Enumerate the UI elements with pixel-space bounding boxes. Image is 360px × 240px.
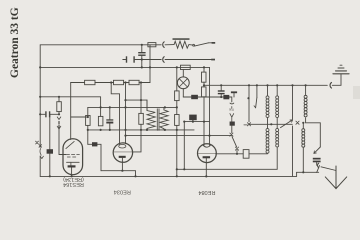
capacitor C3 grid: [45, 111, 46, 117]
wire junction column x141.8: [141, 45, 143, 68]
wire fuse drop x150: [149, 45, 151, 83]
switch S5 blade with arrow: [281, 120, 293, 128]
lamp LA1: [177, 77, 189, 89]
column x176.8: [176, 67, 178, 176]
choke L1b loops: [266, 129, 269, 154]
wire column x184.3: [183, 122, 185, 170]
choke L2b loops: [276, 129, 279, 148]
resistor R7: [98, 116, 103, 125]
bus wire y85.3 to earth: [204, 84, 327, 86]
label V1 RES164: [63, 176, 84, 187]
svg-text:Geatron 33 tG: Geatron 33 tG: [9, 7, 21, 78]
wire corner to rectifier column: [209, 67, 211, 145]
jack box right: [243, 150, 249, 159]
resistor R8: [139, 113, 144, 124]
resistor R12: [202, 72, 207, 82]
wire y124.3: [249, 123, 292, 125]
tube V3 grid wire: [216, 153, 268, 155]
plug connector top: [163, 42, 164, 48]
tube V3 RE084 envelope: [198, 144, 217, 163]
capacitor C6 dark: [223, 95, 229, 99]
transformer T1 core: [157, 109, 159, 131]
svg-text:RE034: RE034: [114, 189, 131, 195]
output coil L3a: [304, 95, 307, 117]
wire cathode bottom middle tube: [101, 171, 136, 177]
switch S3 blade open: [256, 85, 258, 97]
phone chain column x231.8: [230, 102, 234, 105]
capacitor C4 electrolytic: [109, 107, 111, 129]
capacitor C7 tap: [231, 91, 237, 93]
svg-text:RE084: RE084: [198, 189, 215, 195]
resistor R2 volume: [57, 102, 62, 112]
wire bus left lower: [39, 156, 41, 177]
capacitor C9 dark: [230, 122, 235, 126]
rail y107.4: [88, 106, 177, 108]
capacitor C5 dark: [191, 95, 198, 99]
tube V2 anode wire right: [132, 130, 141, 152]
resistor R6: [87, 107, 89, 115]
tube V2 internals: [119, 144, 126, 148]
tube V3 internals: [203, 145, 211, 147]
resistor R4: [114, 80, 124, 84]
bus bottom y176.4: [40, 172, 296, 176]
resistor R10: [175, 115, 180, 126]
wire R6 chain to cathode: [88, 144, 101, 170]
switch mains contacts: [36, 141, 39, 144]
tube V1 top lead: [70, 117, 72, 140]
resistor R3: [85, 80, 95, 84]
capacitor C antenna series: [126, 56, 127, 62]
wire column x71 to tube anode feed: [71, 83, 88, 118]
switch S4 contact: [248, 85, 250, 122]
switch S1 mains: [193, 44, 195, 46]
transformer T1 secondary: [160, 107, 168, 129]
fuse F1: [148, 43, 156, 47]
coil L3 leads: [305, 85, 307, 123]
plug connector lower: [163, 57, 164, 63]
contact x297.5: [296, 121, 299, 124]
tube V2 RE034 envelope: [113, 143, 132, 162]
tube V1 internals: [66, 141, 74, 148]
wire grid feed middle tube: [111, 83, 119, 145]
wire bottom y172.3 right: [297, 171, 319, 173]
capacitor C10 phones: [313, 158, 321, 160]
plug connector phones: [317, 163, 318, 168]
switch S2 contacts: [230, 133, 233, 136]
tube V3 anode lead: [205, 158, 207, 176]
resistor R cathode dark: [47, 149, 53, 154]
svg-text:Fe: Fe: [228, 108, 233, 113]
capacitor dark box chain: [92, 142, 97, 146]
wire y97: [183, 97, 232, 102]
wire y121.6: [184, 121, 209, 123]
transformer T1 primary: [147, 100, 155, 130]
rectifier column x203.5: [203, 67, 205, 145]
wire top mains L1: [40, 45, 148, 148]
resistor R9: [175, 91, 180, 101]
wire y129.9: [87, 125, 89, 144]
wire heater rail y67.4: [40, 66, 209, 68]
resistor R5: [129, 80, 139, 84]
choke leads: [267, 85, 269, 128]
choke L2a loops: [276, 96, 279, 118]
resistor row wire y82.5: [71, 82, 150, 84]
plug connector earth: [330, 83, 331, 89]
column x292.5: [292, 85, 294, 176]
column x141: [140, 83, 142, 130]
resistor R13: [202, 87, 207, 97]
resistor R11 on heater rail: [181, 65, 191, 69]
choke L1a loops: [266, 96, 269, 118]
wire to open contact: [209, 42, 214, 44]
wire y100: [126, 100, 148, 110]
output coil L3b: [302, 129, 305, 148]
wire mains L2 with series capacitor: [123, 59, 126, 61]
tube V2 bottom lead: [121, 158, 123, 171]
tube V1 anode lead: [71, 168, 73, 177]
tube V1 RES164 envelope: [63, 139, 83, 175]
rail y135.6: [126, 135, 232, 137]
wire to phones: [306, 123, 321, 147]
grid lead dashed arrow x59: [57, 117, 61, 120]
page edge smudge: [353, 86, 360, 99]
wire y96.8 left: [40, 97, 100, 117]
barretter resistor with overbar: [174, 41, 189, 48]
switch S6 blade arrow: [314, 147, 320, 153]
ground symbol: [333, 73, 349, 75]
speaker wire bottom y169.3: [177, 147, 277, 169]
electrolytic C8: [189, 115, 197, 121]
wire filament column x125.5: [125, 83, 127, 144]
capacitor C2 between mains lines: [138, 52, 145, 53]
wire cathode column x49.8: [49, 114, 51, 176]
svg-text:RES164: RES164: [63, 181, 84, 187]
wire cap line y114.3: [40, 113, 59, 115]
capacitor C11: [218, 90, 225, 91]
antenna arrow: [335, 166, 337, 189]
